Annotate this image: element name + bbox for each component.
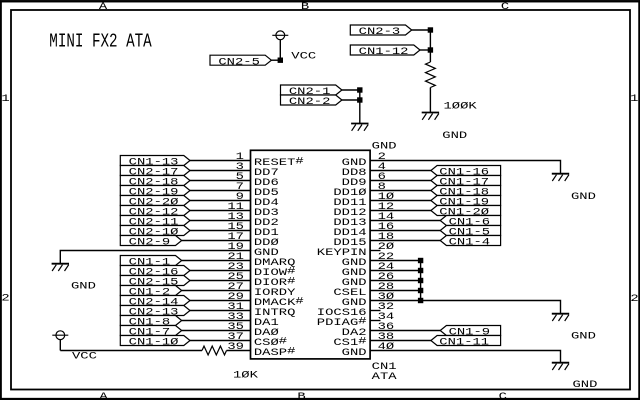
net flag CN2-18 (pin 5) xyxy=(120,176,190,186)
net flag CN2-2 xyxy=(281,95,342,108)
net flag CN1-7 (pin 35) xyxy=(120,326,181,336)
ground (pin 40) xyxy=(552,362,569,364)
svg-text:2: 2 xyxy=(1,294,9,305)
junction pin 28 xyxy=(418,288,422,292)
wire pin 22 to bus xyxy=(370,260,421,262)
net flag CN1-18 (pin 8) xyxy=(431,186,501,196)
net flag CN1-6 (pin 14) xyxy=(440,216,500,226)
wire VCC to resistor xyxy=(60,350,202,352)
wire bus to ground xyxy=(421,301,561,314)
svg-text:GND: GND xyxy=(372,142,397,153)
junction CN2-2 xyxy=(358,98,362,102)
net flag CN1-17 (pin 6) xyxy=(431,176,501,186)
IC connector CN1 ATA body xyxy=(251,150,371,359)
wire pin 37 xyxy=(190,340,251,342)
net flag CN1-16 (pin 4) xyxy=(431,166,501,176)
svg-text:CN2-3: CN2-3 xyxy=(359,27,401,38)
junction pin 30 xyxy=(418,298,422,302)
net flag CN1-2 (pin 27) xyxy=(120,286,181,296)
wire pin 23 xyxy=(190,270,251,272)
svg-text:1ØK: 1ØK xyxy=(233,370,259,382)
wire pin 8 xyxy=(370,190,431,192)
junction pin 26 xyxy=(418,278,422,282)
junction CN2-3 xyxy=(428,28,432,32)
wire CN1-12 xyxy=(420,49,430,51)
wire pin 30 to bus xyxy=(370,300,421,302)
svg-text:1: 1 xyxy=(630,94,638,105)
wire to ground (CN2-1/2) xyxy=(359,90,361,124)
wire pin 27 xyxy=(182,290,251,292)
net flag CN1-8 (pin 33) xyxy=(120,316,181,326)
wire pin 18 xyxy=(370,240,440,242)
svg-text:GND: GND xyxy=(71,282,96,293)
power flag VCC (top) xyxy=(276,31,285,40)
wire pin 21 xyxy=(182,260,251,262)
net flag CN2-10 (pin 15) xyxy=(120,226,190,236)
wire CN2-2 xyxy=(342,99,360,101)
ground (pin 2) xyxy=(552,173,569,175)
wire pin 1 xyxy=(190,160,251,162)
junction CN1-12 xyxy=(428,48,432,52)
wire CN2-1 xyxy=(342,89,360,91)
svg-text:1ØØK: 1ØØK xyxy=(444,101,478,113)
wire VCC stem xyxy=(279,40,281,61)
ground (pin 19) xyxy=(52,263,69,265)
net flag CN2-19 (pin 7) xyxy=(120,186,190,196)
svg-text:DASP#: DASP# xyxy=(254,347,296,359)
power flag VCC (bottom) xyxy=(56,331,65,340)
svg-text:ATA: ATA xyxy=(372,372,398,383)
wire GND bus vertical xyxy=(420,261,422,301)
net flag CN2-13 (pin 31) xyxy=(120,306,190,316)
wire pin 12 xyxy=(370,210,431,212)
svg-text:GND: GND xyxy=(571,192,596,203)
svg-text:B: B xyxy=(297,392,305,400)
pin 32 stub xyxy=(370,310,380,312)
wire pin 19 to ground xyxy=(60,251,250,264)
svg-text:VCC: VCC xyxy=(72,352,97,363)
wire resistor to ground xyxy=(429,88,431,113)
net flag CN1-13 (pin 1) xyxy=(120,156,190,166)
svg-text:VCC: VCC xyxy=(291,52,316,63)
net flag CN1-10 (pin 37) xyxy=(120,336,190,346)
svg-text:CN1-4: CN1-4 xyxy=(449,238,491,249)
wire CN2-5 to VCC xyxy=(271,59,280,61)
svg-text:MINI FX2 ATA: MINI FX2 ATA xyxy=(49,30,152,52)
wire into resistor R 100K xyxy=(429,30,431,62)
net flag CN2-17 (pin 3) xyxy=(120,166,190,176)
wire pin 31 xyxy=(190,310,251,312)
net flag CN1-9 (pin 36) xyxy=(440,326,500,336)
net flag CN2-1 xyxy=(281,85,342,98)
pin 20 stub xyxy=(370,250,380,252)
junction pin 22 xyxy=(418,258,422,262)
junction at VCC/CN2-5 xyxy=(278,58,282,62)
wire CN2-3 xyxy=(412,29,431,31)
svg-text:CN1-12: CN1-12 xyxy=(359,47,409,58)
junction CN2-1 xyxy=(358,88,362,92)
wire pin 29 xyxy=(190,300,251,302)
net flag CN2-20 (pin 9) xyxy=(120,196,190,206)
svg-text:2: 2 xyxy=(630,294,638,305)
pin 34 stub xyxy=(370,320,380,322)
svg-text:CN2-9: CN2-9 xyxy=(129,238,171,249)
svg-text:CN1-1Ø: CN1-1Ø xyxy=(129,337,179,349)
net flag CN1-1 (pin 21) xyxy=(120,256,181,266)
svg-text:C: C xyxy=(501,2,509,13)
svg-text:CN2-2: CN2-2 xyxy=(289,97,331,108)
wire pin 35 xyxy=(182,330,251,332)
net flag CN2-16 (pin 23) xyxy=(120,266,190,276)
net flag CN2-14 (pin 29) xyxy=(120,296,190,306)
wire resistor to pin 39 xyxy=(227,350,251,352)
net flag CN2-12 (pin 11) xyxy=(120,206,190,216)
ground (CN2-1/2) xyxy=(351,123,368,125)
wire pin 24 to bus xyxy=(370,270,421,272)
wire pin 40 to ground xyxy=(370,351,560,363)
wire pin 7 xyxy=(190,190,251,192)
svg-text:CN2-5: CN2-5 xyxy=(218,57,260,68)
net flag CN1-19 (pin 10) xyxy=(431,196,501,206)
resistor 10K xyxy=(202,346,227,355)
svg-text:39: 39 xyxy=(227,342,244,353)
svg-text:GND: GND xyxy=(342,348,367,359)
junction pin 24 xyxy=(418,268,422,272)
wire VCC stem (bottom) xyxy=(59,340,61,351)
svg-text:GND: GND xyxy=(442,131,467,142)
net flag CN2-3 xyxy=(350,25,411,38)
wire pin 36 xyxy=(370,330,440,332)
net flag CN2-15 (pin 25) xyxy=(120,276,190,286)
wire pin 3 xyxy=(190,170,251,172)
wire pin 17 xyxy=(182,240,251,242)
svg-text:1: 1 xyxy=(1,94,9,105)
wire pin 14 xyxy=(370,220,440,222)
wire pin 11 xyxy=(190,210,251,212)
svg-text:A: A xyxy=(99,392,108,400)
wire pin 33 xyxy=(182,320,251,322)
wire pin 13 xyxy=(190,220,251,222)
resistor 100K xyxy=(426,62,436,88)
ground (100K) xyxy=(422,112,439,114)
net flag CN2-9 (pin 17) xyxy=(120,236,181,246)
wire pin 2 to ground xyxy=(370,161,560,174)
ground (GND bus) xyxy=(552,313,569,315)
net flag CN1-5 (pin 16) xyxy=(440,226,500,236)
svg-text:GND: GND xyxy=(571,331,596,342)
svg-text:GND: GND xyxy=(573,380,598,391)
net flag CN1-12 xyxy=(350,45,420,58)
net flag CN1-11 (pin 38) xyxy=(431,336,501,346)
net flag CN2-11 (pin 13) xyxy=(120,216,190,226)
wire pin 16 xyxy=(370,230,440,232)
wire pin 15 xyxy=(190,230,251,232)
svg-text:CN1-11: CN1-11 xyxy=(439,338,489,349)
wire pin 4 xyxy=(370,170,431,172)
svg-text:B: B xyxy=(301,2,309,13)
net flag CN1-20 (pin 12) xyxy=(431,206,501,216)
wire pin 5 xyxy=(190,180,251,182)
net flag CN1-4 (pin 18) xyxy=(440,236,500,246)
wire pin 26 to bus xyxy=(370,280,421,282)
svg-text:C: C xyxy=(499,392,507,400)
wire pin 25 xyxy=(190,280,251,282)
svg-text:A: A xyxy=(99,2,108,13)
net flag CN2-5 xyxy=(210,55,271,68)
wire pin 38 xyxy=(370,340,431,342)
wire pin 28 to bus xyxy=(370,290,421,292)
wire pin 9 xyxy=(190,200,251,202)
wire pin 10 xyxy=(370,200,431,202)
wire pin 6 xyxy=(370,180,431,182)
